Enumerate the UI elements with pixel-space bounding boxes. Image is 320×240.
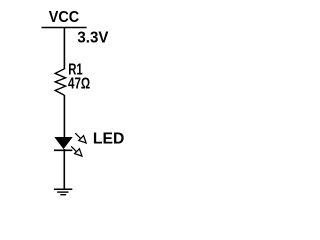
svg-text:47Ω: 47Ω [68, 75, 90, 92]
svg-text:3.3V: 3.3V [77, 30, 109, 47]
svg-text:VCC: VCC [49, 9, 79, 26]
svg-text:LED: LED [93, 131, 124, 148]
